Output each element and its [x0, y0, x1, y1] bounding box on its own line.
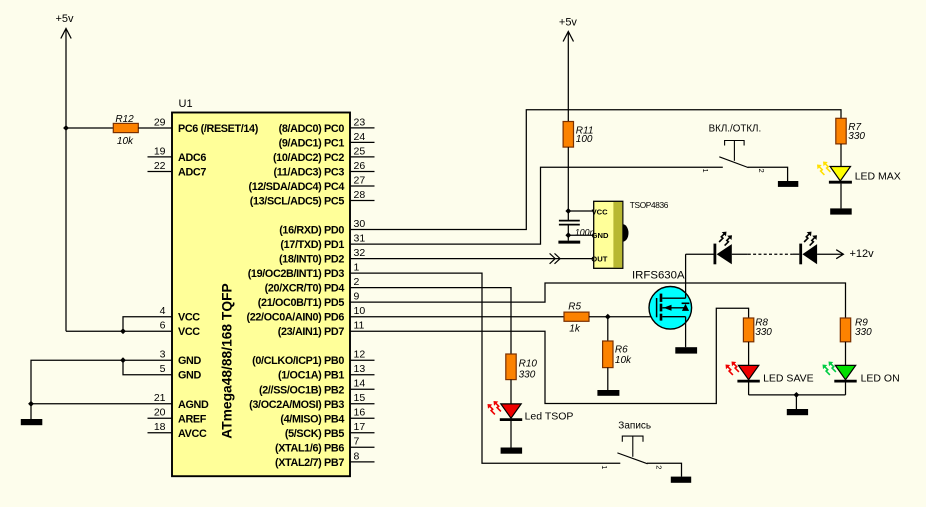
LED D6 LED ON	[823, 362, 857, 382]
pin 9 (21/OC0B/T1) PD5	[258, 291, 360, 310]
svg-text:22: 22	[154, 160, 166, 172]
wire PD2 to TSOP OUT	[350, 258, 594, 260]
svg-text:330: 330	[855, 327, 872, 338]
wire GND pin3 to ground	[31, 360, 172, 404]
wire PD5 to R9	[350, 283, 846, 318]
svg-text:LED MAX: LED MAX	[855, 171, 901, 183]
svg-text:(0/CLKO/ICP1) PB0: (0/CLKO/ICP1) PB0	[252, 355, 344, 367]
op-amp U2 TSOP4836 body	[591, 201, 628, 268]
svg-text:R10: R10	[519, 359, 538, 370]
pin 23 (8/ADC0) PC0	[279, 116, 375, 135]
svg-text:(23/AIN1) PD7: (23/AIN1) PD7	[278, 326, 345, 338]
wire to TSOP GND pin	[568, 234, 593, 236]
wire ground stem	[30, 404, 32, 419]
svg-text:9: 9	[354, 291, 360, 303]
svg-text:15: 15	[354, 392, 366, 404]
pin 3 GND	[160, 349, 202, 368]
pin 29 PC6 (/RESET/14)	[154, 116, 259, 135]
node GND junction	[120, 357, 126, 363]
svg-text:(22/OC0A/AIN0) PD6: (22/OC0A/AIN0) PD6	[247, 312, 345, 324]
svg-text:+5v: +5v	[56, 13, 75, 25]
svg-text:OUT: OUT	[591, 254, 607, 263]
svg-text:AGND: AGND	[178, 399, 209, 411]
pin 28 (13/SCL/ADC5) PC5	[250, 189, 375, 208]
svg-text:ВКЛ./ОТКЛ.: ВКЛ./ОТКЛ.	[709, 123, 762, 134]
svg-text:26: 26	[354, 160, 366, 172]
wire switch S1 to ground	[748, 167, 788, 181]
svg-text:1: 1	[701, 169, 710, 173]
pin 7 (XTAL1/6) PB6	[275, 436, 375, 455]
ground LED MAX ground	[830, 208, 852, 214]
svg-text:7: 7	[354, 436, 360, 448]
svg-text:Led TSOP: Led TSOP	[525, 411, 574, 423]
svg-text:(13/SCL/ADC5) PC5: (13/SCL/ADC5) PC5	[250, 196, 345, 208]
svg-text:17: 17	[354, 421, 366, 433]
svg-text:R6: R6	[615, 345, 628, 356]
svg-text:LED SAVE: LED SAVE	[763, 373, 814, 385]
wire branch to VCC pin 4	[123, 317, 172, 332]
svg-text:2: 2	[654, 465, 663, 469]
wire R9 to LED ON	[845, 342, 847, 366]
svg-text:(XTAL1/6) PB6: (XTAL1/6) PB6	[275, 442, 344, 454]
svg-text:21: 21	[154, 392, 166, 404]
ground LED rail ground	[787, 409, 808, 415]
node AGND junction	[28, 401, 34, 407]
svg-text:(5/SCK) PB5: (5/SCK) PB5	[285, 428, 344, 440]
svg-text:10k: 10k	[615, 355, 632, 366]
wire R7 to LED MAX	[840, 144, 842, 167]
svg-text:(12/SDA/ADC4) PC4: (12/SDA/ADC4) PC4	[249, 181, 345, 193]
svg-text:(XTAL2/7) PB7: (XTAL2/7) PB7	[275, 457, 344, 469]
wire AGND pin 21 wire	[31, 403, 172, 405]
svg-text:31: 31	[354, 233, 366, 245]
svg-text:330: 330	[755, 327, 772, 338]
pin 21 AGND	[154, 392, 209, 411]
wire dashed link to D2	[793, 253, 799, 255]
wire source to ground	[685, 317, 687, 348]
svg-text:5: 5	[160, 363, 166, 375]
node gate node	[605, 314, 611, 320]
svg-text:+12v: +12v	[850, 248, 875, 260]
svg-text:GND: GND	[178, 370, 201, 382]
svg-text:(3/OC2A/MOSI) PB3: (3/OC2A/MOSI) PB3	[249, 399, 344, 411]
pin 15 (3/OC2A/MOSI) PB3	[249, 392, 374, 411]
svg-text:(19/OC2B/INT1) PD3: (19/OC2B/INT1) PD3	[248, 268, 345, 280]
pin 17 (5/SCK) PB5	[285, 421, 375, 440]
pin 16 (4/MISO) PB4	[280, 407, 374, 426]
ground left GND symbol	[21, 419, 43, 425]
svg-text:ATmega48/88/168 TQFP: ATmega48/88/168 TQFP	[220, 283, 235, 438]
resistor R9	[840, 318, 850, 342]
wire R8 to LED SAVE	[748, 342, 750, 366]
wire PD3 to switch S2	[350, 273, 620, 463]
svg-text:Запись: Запись	[618, 420, 651, 431]
svg-text:R12: R12	[115, 114, 134, 125]
svg-text:28: 28	[354, 189, 366, 201]
pin 5 GND	[160, 363, 202, 382]
wire rail to ground	[795, 395, 797, 409]
switch S2 Запись	[617, 436, 647, 464]
node GND node	[565, 232, 571, 238]
svg-text:25: 25	[354, 145, 366, 157]
ground Q1 source ground	[675, 347, 697, 353]
svg-text:(4/MISO) PB4: (4/MISO) PB4	[280, 413, 344, 425]
svg-text:18: 18	[154, 421, 166, 433]
svg-text:R5: R5	[568, 301, 581, 312]
svg-text:(17/TXD) PD1: (17/TXD) PD1	[280, 239, 344, 251]
pin 14 (2//SS/OC1B) PB2	[259, 378, 375, 397]
resistor R12	[113, 123, 138, 132]
svg-text:(21/OC0B/T1) PD5: (21/OC0B/T1) PD5	[258, 297, 345, 309]
wire D1 to dashed link	[732, 253, 748, 255]
wire PD6 to R5	[350, 316, 564, 318]
wire switch S2 to ground	[647, 463, 682, 476]
pin 18 AVCC	[148, 421, 207, 440]
wire LED MAX cathode to ground	[840, 184, 842, 209]
pin 1 (19/OC2B/INT1) PD3	[248, 262, 360, 281]
svg-text:100: 100	[576, 134, 593, 145]
wire Led TSOP cathode to ground	[510, 421, 512, 448]
pin 26 (11/ADC3) PC3	[274, 160, 375, 179]
svg-text:23: 23	[354, 116, 366, 128]
wire R6 to ground	[607, 368, 609, 390]
svg-text:330: 330	[519, 370, 536, 381]
svg-text:U1: U1	[179, 98, 193, 110]
svg-text:24: 24	[354, 131, 366, 143]
svg-text:GND: GND	[592, 231, 609, 240]
capacitor C1	[559, 211, 580, 235]
svg-text:GND: GND	[178, 355, 201, 367]
pin 13 (1/OC1A) PB1	[278, 363, 375, 382]
pin 6 VCC	[160, 320, 201, 339]
op-amp U1 ATmega48/88/168 TQFP body	[172, 113, 350, 477]
pin 12 (0/CLKO/ICP1) PB0	[252, 349, 374, 368]
svg-text:3: 3	[160, 349, 166, 361]
resistor R8	[743, 318, 753, 342]
ground C1 ground bar	[558, 241, 580, 244]
svg-text:VCC: VCC	[178, 312, 200, 324]
svg-text:(2//SS/OC1B) PB2: (2//SS/OC1B) PB2	[259, 384, 344, 396]
ground switch S1 ground	[778, 181, 798, 187]
svg-text:16: 16	[354, 407, 366, 419]
node LED rail junction	[794, 392, 800, 398]
resistor R6	[603, 341, 613, 368]
svg-text:(20/XCR/T0) PD4: (20/XCR/T0) PD4	[265, 283, 345, 295]
svg-text:IRFS630A: IRFS630A	[632, 270, 685, 282]
wire GND node stem	[567, 235, 569, 240]
svg-text:1: 1	[600, 465, 609, 469]
wire PD1 to switch S1	[350, 167, 723, 244]
node +5v / R12 junction	[63, 125, 69, 131]
svg-text:32: 32	[354, 247, 366, 259]
svg-text:13: 13	[354, 363, 366, 375]
svg-text:PC6 (/RESET/14): PC6 (/RESET/14)	[178, 123, 259, 135]
LED D2 (IR)	[799, 232, 817, 265]
resistor R11	[563, 122, 573, 148]
wire to TSOP VCC pin	[568, 210, 593, 212]
wire LED SAVE cathode to rail	[748, 383, 750, 395]
svg-text:30: 30	[354, 218, 366, 230]
svg-text:11: 11	[354, 320, 365, 332]
node signal chevrons	[550, 253, 561, 263]
svg-text:(18/INT0) PD2: (18/INT0) PD2	[279, 254, 344, 266]
wire branch GND pin 5	[123, 360, 172, 375]
wire PD4 to R10	[350, 288, 511, 354]
wire PD7 to R8	[350, 308, 749, 403]
wire LED common rail	[749, 394, 846, 396]
svg-text:(16/RXD) PD0: (16/RXD) PD0	[279, 225, 344, 237]
wire PD0 to R7	[350, 110, 841, 230]
svg-text:TSOP4836: TSOP4836	[630, 200, 669, 210]
LED D3 LED MAX	[817, 162, 852, 183]
svg-text:10: 10	[354, 305, 366, 317]
svg-text:(10/ADC2) PC2: (10/ADC2) PC2	[273, 152, 344, 164]
pin 2 (20/XCR/T0) PD4	[265, 276, 360, 295]
wire R11 to TSOP VCC	[567, 147, 569, 211]
pin 31 (17/TXD) PD1	[280, 233, 365, 252]
wire +5v rail to VCC pin 6	[66, 330, 172, 332]
svg-text:(8/ADC0) PC0: (8/ADC0) PC0	[279, 123, 345, 135]
svg-text:LED ON: LED ON	[861, 373, 900, 385]
svg-text:19: 19	[154, 145, 166, 157]
wire LED ON cathode to rail	[845, 383, 847, 395]
node VCC junction	[120, 328, 126, 334]
wire +5v to R12	[66, 127, 113, 129]
svg-text:20: 20	[154, 407, 166, 419]
pin 11 (23/AIN1) PD7	[278, 320, 365, 339]
svg-text:14: 14	[354, 378, 366, 390]
svg-text:10k: 10k	[117, 136, 134, 147]
svg-text:VCC: VCC	[592, 208, 609, 217]
node VCC node	[565, 208, 571, 214]
svg-text:VCC: VCC	[178, 326, 200, 338]
power +5v (left)	[56, 13, 75, 331]
svg-text:(11/ADC3) PC3: (11/ADC3) PC3	[274, 167, 345, 179]
wire D2 to +12v arrow	[817, 250, 843, 259]
power +5v (center)	[559, 17, 578, 122]
svg-text:AVCC: AVCC	[178, 428, 207, 440]
ground R6 ground	[597, 390, 619, 396]
svg-text:ADC6: ADC6	[178, 152, 206, 164]
ground switch S2 ground	[671, 477, 691, 483]
svg-text:ADC7: ADC7	[178, 167, 206, 179]
svg-text:6: 6	[160, 320, 166, 332]
ground Led TSOP ground	[501, 448, 522, 454]
svg-text:1k: 1k	[569, 324, 581, 335]
wire drain to IR LED D1	[686, 253, 714, 255]
pin 4 VCC	[160, 305, 201, 324]
wire dashed link	[748, 253, 793, 255]
pin 19 ADC6	[148, 145, 207, 164]
svg-text:8: 8	[354, 450, 360, 462]
LED D5 LED SAVE	[726, 362, 760, 382]
svg-text:1: 1	[354, 262, 360, 274]
svg-text:2: 2	[354, 276, 360, 288]
pin 32 (18/INT0) PD2	[279, 247, 365, 266]
svg-text:+5v: +5v	[559, 17, 578, 29]
svg-text:27: 27	[354, 174, 366, 186]
pin 22 ADC7	[148, 160, 207, 179]
svg-text:4: 4	[160, 305, 166, 317]
pin 27 (12/SDA/ADC4) PC4	[249, 174, 375, 193]
resistor R5	[564, 312, 589, 321]
wire R5 to gate	[589, 316, 657, 318]
wire R10 to Led TSOP	[510, 380, 512, 404]
svg-text:12: 12	[354, 349, 366, 361]
svg-text:AREF: AREF	[178, 413, 207, 425]
resistor R10	[506, 354, 516, 380]
wire gate node to R6	[607, 317, 609, 341]
pin 10 (22/OC0A/AIN0) PD6	[247, 305, 366, 324]
wire drain riser	[685, 254, 687, 298]
pin 20 AREF	[148, 407, 207, 426]
svg-text:2: 2	[757, 169, 766, 173]
LED D4 Led TSOP	[488, 401, 523, 420]
transistor Q1 IRFS630A	[649, 287, 692, 330]
pin 30 (16/RXD) PD0	[279, 218, 365, 237]
pin 8 (XTAL2/7) PB7	[275, 450, 375, 469]
svg-text:(9/ADC1) PC1: (9/ADC1) PC1	[279, 137, 345, 149]
svg-text:330: 330	[848, 131, 865, 142]
resistor R7	[836, 118, 846, 144]
pin 25 (10/ADC2) PC2	[273, 145, 375, 164]
svg-text:29: 29	[154, 116, 166, 128]
wire R12 to PC6 pin 29	[138, 127, 172, 129]
pin 24 (9/ADC1) PC1	[279, 131, 375, 150]
svg-text:(1/OC1A) PB1: (1/OC1A) PB1	[278, 370, 344, 382]
switch S1 ВКЛ./ОТКЛ.	[719, 141, 748, 168]
LED D1 (IR)	[714, 232, 733, 265]
